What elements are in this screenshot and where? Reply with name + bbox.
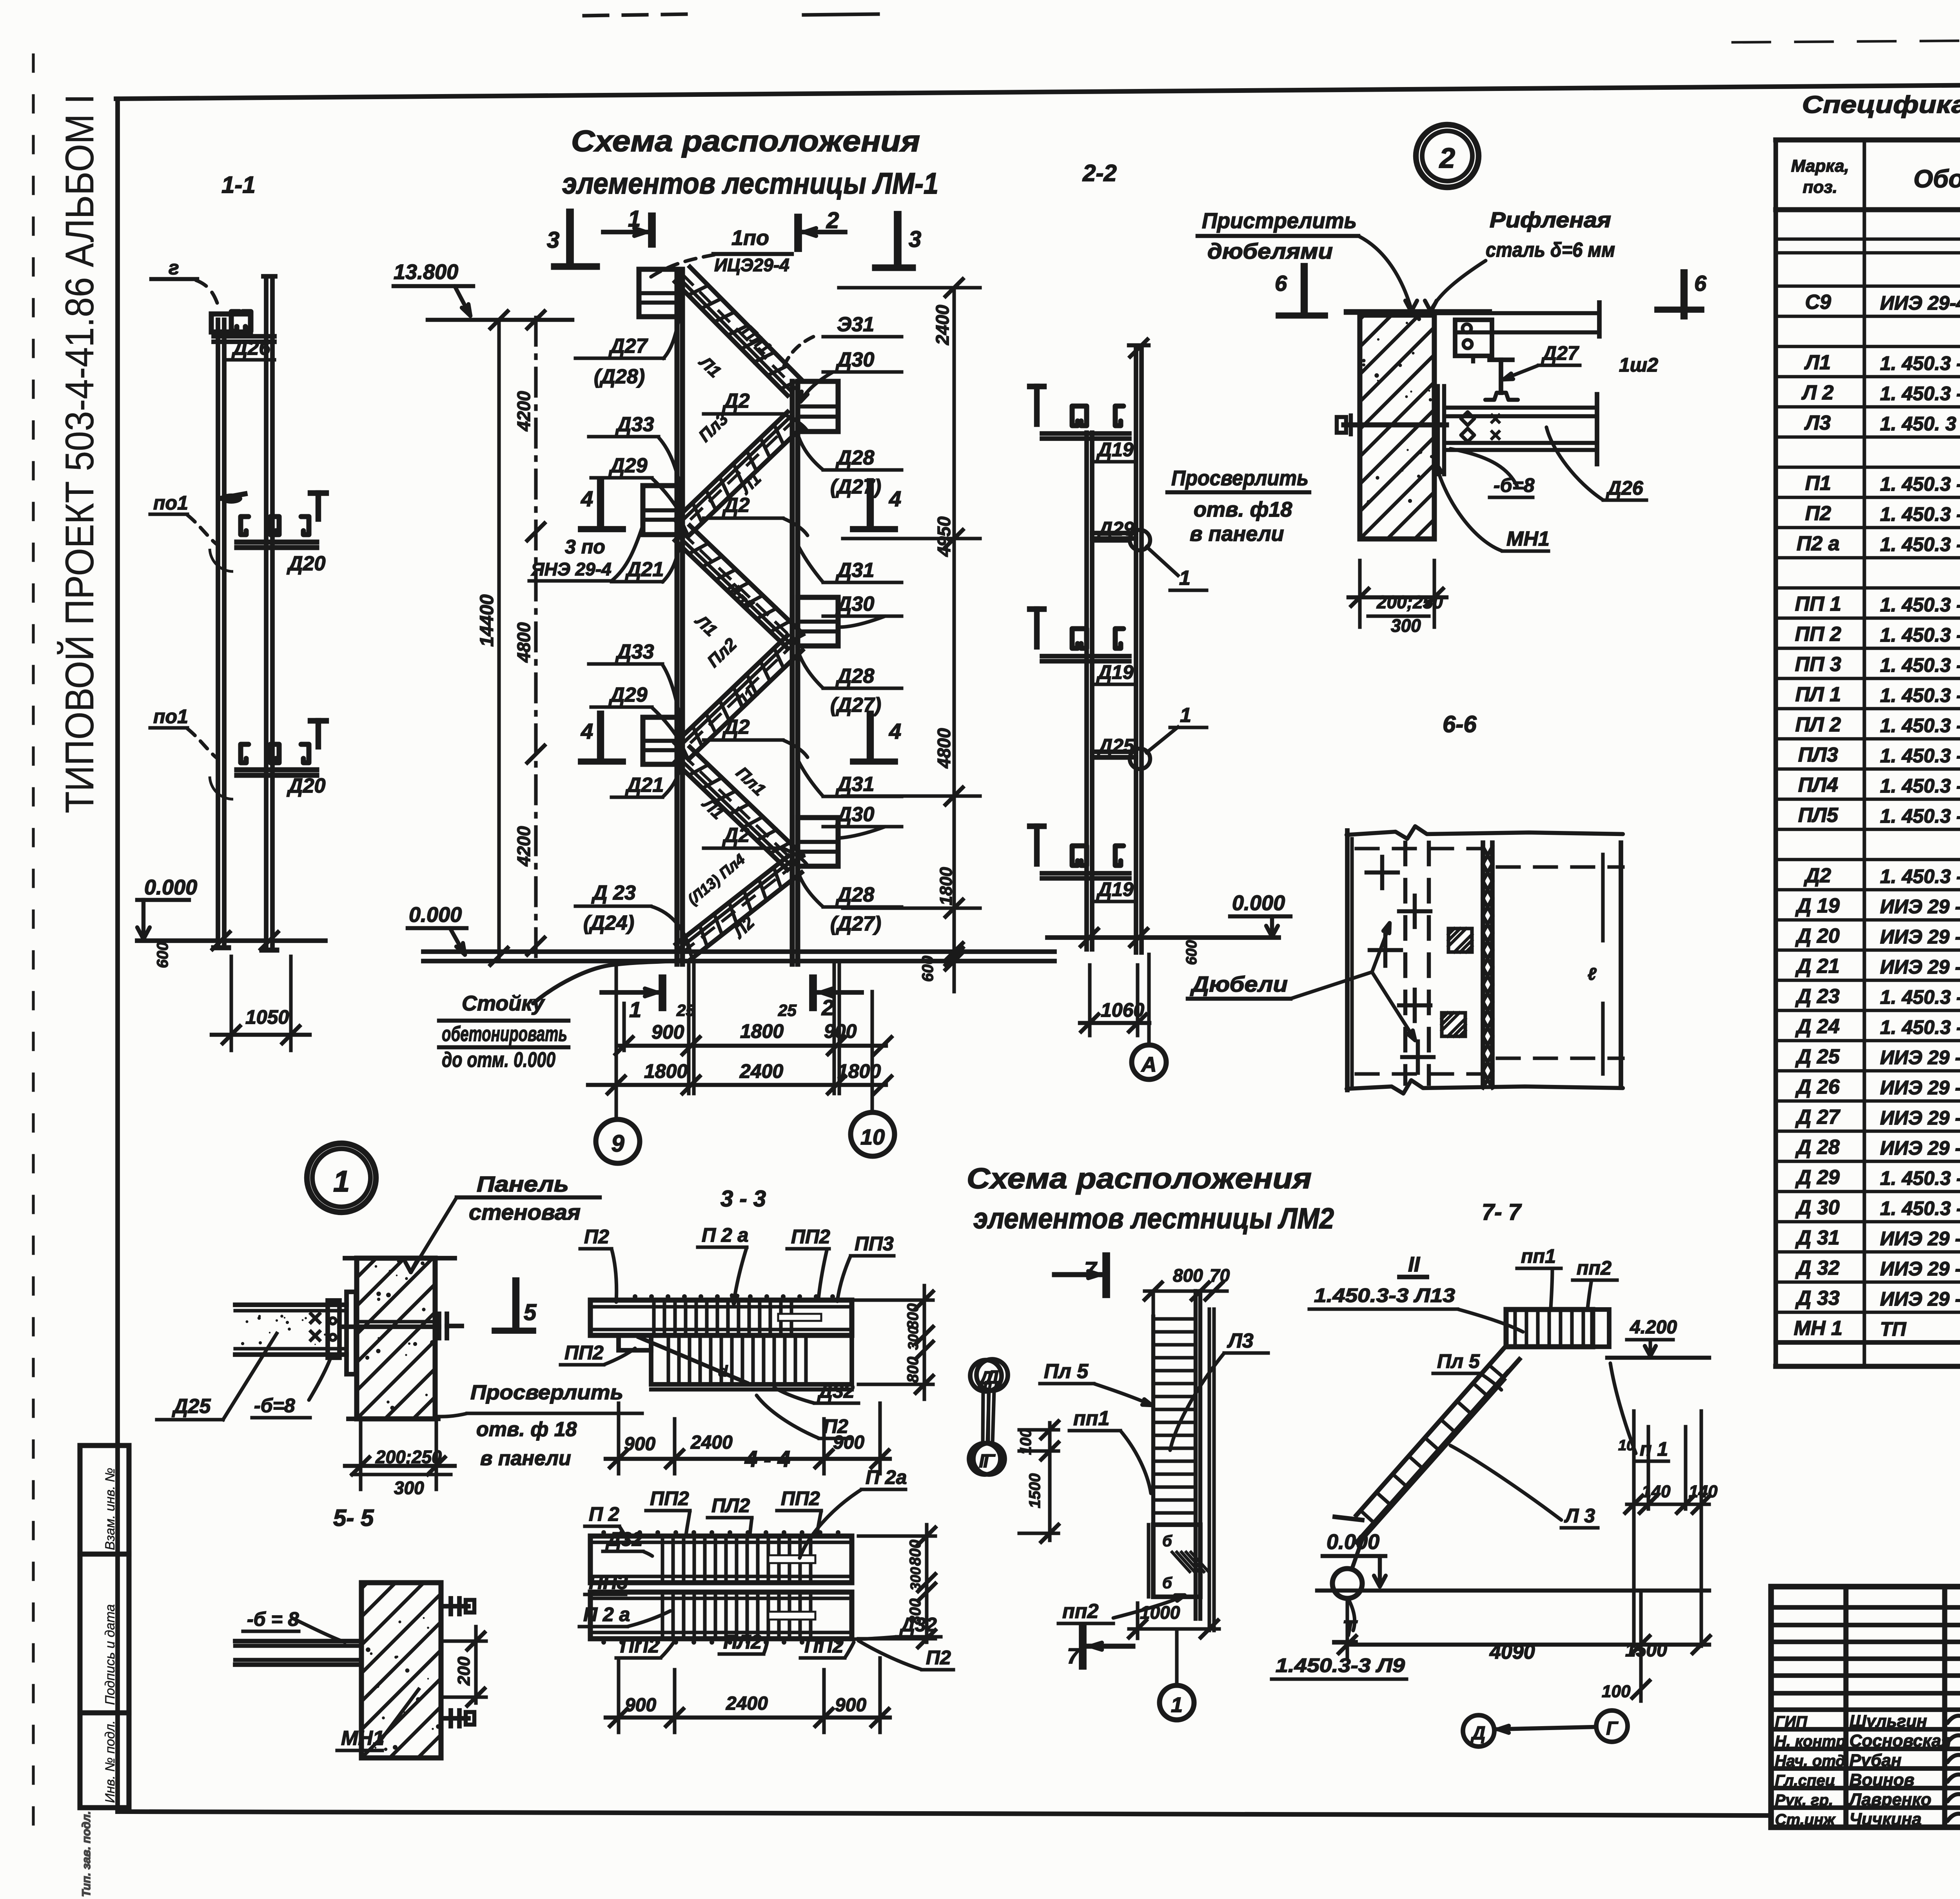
- svg-text:Д 31: Д 31: [1795, 1226, 1840, 1249]
- svg-text:ТП: ТП: [1880, 1318, 1907, 1340]
- svg-text:П 2 а: П 2 а: [702, 1224, 748, 1246]
- svg-text:Схема расположения: Схема расположения: [571, 125, 920, 158]
- svg-text:П 2: П 2: [589, 1503, 619, 1525]
- svg-text:Д 30: Д 30: [1795, 1196, 1840, 1219]
- svg-text:ИИЭ 29 - 4: ИИЭ 29 - 4: [1880, 1047, 1960, 1068]
- svg-text:1. 450.3 - 3, вып.1 ч. 2: 1. 450.3 - 3, вып.1 ч. 2: [1880, 624, 1960, 646]
- svg-text:Д2: Д2: [722, 390, 750, 412]
- svg-text:по1: по1: [153, 492, 188, 514]
- svg-text:Г: Г: [983, 1451, 996, 1472]
- svg-text:4950: 4950: [934, 516, 954, 557]
- svg-text:отв. ф 18: отв. ф 18: [476, 1418, 577, 1441]
- svg-text:3: 3: [909, 227, 921, 252]
- svg-text:1. 450.3 - 3, вып. 1 ч.2: 1. 450.3 - 3, вып. 1 ч.2: [1880, 1197, 1960, 1219]
- svg-text:1. 450.3 - 3, вып. 1 ч. 1: 1. 450.3 - 3, вып. 1 ч. 1: [1880, 383, 1960, 404]
- svg-text:обетонировать: обетонировать: [442, 1022, 567, 1046]
- svg-text:Д28: Д28: [835, 665, 874, 687]
- svg-text:1. 450.3 - 3. вып.1 ч. 2: 1. 450.3 - 3. вып.1 ч. 2: [1880, 533, 1960, 555]
- svg-text:Д2: Д2: [722, 716, 750, 738]
- svg-text:200;250: 200;250: [1376, 592, 1443, 612]
- svg-text:ПП2: ПП2: [781, 1487, 820, 1509]
- svg-text:1: 1: [1180, 704, 1191, 727]
- svg-text:6: 6: [1275, 271, 1287, 296]
- svg-text:1800: 1800: [936, 867, 956, 905]
- svg-text:Д20: Д20: [287, 774, 325, 797]
- svg-text:в панели: в панели: [480, 1447, 571, 1470]
- svg-text:ПП 2: ПП 2: [1795, 623, 1841, 646]
- svg-text:ИИЭ 29-4: ИИЭ 29-4: [1880, 292, 1960, 314]
- svg-text:800: 800: [907, 1540, 924, 1566]
- svg-text:элементов лестницы ЛМ-1: элементов лестницы ЛМ-1: [562, 167, 938, 200]
- svg-text:Д21: Д21: [625, 558, 664, 581]
- svg-text:140: 140: [1642, 1482, 1671, 1501]
- svg-text:Д 26: Д 26: [1795, 1076, 1840, 1098]
- svg-text:Пристрелить: Пристрелить: [1202, 208, 1357, 233]
- svg-text:2: 2: [1439, 143, 1455, 174]
- svg-text:ИИЭ 29 - 4: ИИЭ 29 - 4: [1880, 1228, 1960, 1250]
- svg-text:ПЛ 2: ПЛ 2: [1795, 713, 1841, 736]
- svg-text:П 2а: П 2а: [866, 1466, 907, 1488]
- svg-text:ПП2: ПП2: [564, 1342, 604, 1364]
- svg-text:II: II: [1408, 1253, 1420, 1276]
- svg-text:1: 1: [1171, 1693, 1183, 1717]
- svg-text:поз.: поз.: [1803, 178, 1837, 197]
- svg-text:ПЛ4: ПЛ4: [1798, 774, 1838, 796]
- svg-text:ПЛ5: ПЛ5: [1798, 804, 1838, 827]
- svg-text:100: 100: [1602, 1682, 1631, 1701]
- svg-text:Л3: Л3: [1804, 412, 1831, 434]
- svg-text:ИИЭ 29 - 4: ИИЭ 29 - 4: [1880, 1077, 1960, 1099]
- svg-text:4: 4: [581, 719, 593, 744]
- svg-text:Д 33: Д 33: [1795, 1287, 1840, 1310]
- svg-text:пп1: пп1: [1073, 1407, 1109, 1430]
- svg-text:4: 4: [581, 486, 593, 511]
- svg-text:элементов лестницы ЛМ2: элементов лестницы ЛМ2: [973, 1202, 1334, 1235]
- svg-text:Д 24: Д 24: [1795, 1015, 1840, 1038]
- svg-text:г: г: [169, 257, 179, 279]
- svg-text:Д28: Д28: [835, 883, 874, 906]
- svg-text:(Л13) Пл4: (Л13) Пл4: [685, 851, 748, 908]
- svg-text:2: 2: [826, 208, 839, 233]
- svg-text:4200: 4200: [514, 391, 534, 432]
- svg-text:900: 900: [652, 1021, 684, 1043]
- svg-text:1. 450.3 - 3 вып.1 ч.2: 1. 450.3 - 3 вып.1 ч.2: [1880, 745, 1960, 767]
- svg-text:ПП2: ПП2: [804, 1635, 844, 1657]
- svg-text:Д 23: Д 23: [591, 881, 636, 904]
- svg-text:1. 450.3 - 3. вып.1 ч.2: 1. 450.3 - 3. вып.1 ч.2: [1880, 654, 1960, 676]
- svg-text:П2: П2: [1805, 502, 1831, 525]
- svg-text:Д27: Д27: [608, 335, 648, 357]
- svg-text:Д21: Д21: [625, 774, 664, 796]
- svg-text:2400: 2400: [726, 1693, 768, 1714]
- svg-text:ПП2: ПП2: [791, 1226, 830, 1248]
- svg-text:1800: 1800: [837, 1060, 881, 1082]
- svg-text:Д2: Д2: [722, 494, 750, 517]
- svg-text:7: 7: [1067, 1643, 1080, 1668]
- svg-text:Панель: Панель: [477, 1172, 569, 1196]
- svg-text:4800: 4800: [934, 728, 954, 769]
- svg-text:б: б: [1162, 1574, 1172, 1592]
- svg-text:ИИЭ 29 - 4: ИИЭ 29 - 4: [1880, 1107, 1960, 1129]
- svg-text:1. 450.3 - 3. вып.1 ч.2: 1. 450.3 - 3. вып.1 ч.2: [1880, 865, 1960, 887]
- svg-text:900: 900: [625, 1695, 656, 1716]
- svg-text:ПП3: ПП3: [589, 1571, 628, 1593]
- svg-text:200: 200: [454, 1656, 474, 1686]
- svg-text:Д30: Д30: [835, 803, 874, 826]
- svg-text:Рифленая: Рифленая: [1490, 207, 1611, 232]
- svg-text:1. 450.3 - 3. вып. 1 ч.2: 1. 450.3 - 3. вып. 1 ч.2: [1880, 805, 1960, 827]
- svg-text:1: 1: [333, 1165, 350, 1198]
- svg-text:Л1: Л1: [691, 611, 721, 640]
- svg-text:Д 20: Д 20: [1795, 925, 1840, 947]
- svg-text:Ст.инж: Ст.инж: [1775, 1811, 1836, 1828]
- svg-text:Д33: Д33: [615, 640, 654, 663]
- svg-text:10: 10: [860, 1125, 885, 1149]
- svg-text:300: 300: [907, 1567, 924, 1591]
- svg-text:1800: 1800: [644, 1060, 688, 1082]
- svg-text:Д19: Д19: [1096, 878, 1134, 900]
- svg-text:0.000: 0.000: [1232, 891, 1285, 915]
- svg-text:Д 25: Д 25: [1795, 1045, 1840, 1068]
- svg-text:пп2: пп2: [1577, 1257, 1612, 1279]
- svg-text:ПП2: ПП2: [620, 1635, 659, 1657]
- svg-text:1. 450.3 - 3, вып. 1 ч.2: 1. 450.3 - 3, вып. 1 ч.2: [1880, 775, 1960, 797]
- svg-text:ИИЭ 29 - 4: ИИЭ 29 - 4: [1880, 1288, 1960, 1310]
- svg-text:-б=8: -б=8: [1494, 474, 1535, 496]
- svg-text:300: 300: [1391, 615, 1421, 636]
- svg-text:Д19: Д19: [1096, 661, 1134, 683]
- svg-text:0.000: 0.000: [144, 876, 197, 899]
- svg-text:1. 450.3 - 3, вып.1 ч.2: 1. 450.3 - 3, вып.1 ч.2: [1880, 1016, 1960, 1038]
- svg-text:Л3: Л3: [1227, 1329, 1254, 1352]
- svg-text:Д 21: Д 21: [1795, 955, 1840, 978]
- svg-text:Д30: Д30: [835, 593, 874, 615]
- svg-text:600: 600: [1183, 940, 1200, 965]
- svg-text:П2: П2: [926, 1647, 951, 1669]
- svg-text:4.200: 4.200: [1630, 1317, 1677, 1338]
- svg-text:4 - 4: 4 - 4: [744, 1446, 790, 1472]
- svg-text:1. 450. 3 - 3, вып. 1 ч. 1: 1. 450. 3 - 3, вып. 1 ч. 1: [1880, 413, 1960, 435]
- svg-text:Д19: Д19: [1096, 439, 1134, 461]
- svg-text:Дюбели: Дюбели: [1190, 972, 1288, 996]
- svg-text:5- 5: 5- 5: [333, 1505, 374, 1531]
- svg-text:0.000: 0.000: [1327, 1530, 1379, 1554]
- svg-text:С9: С9: [1805, 291, 1831, 314]
- svg-text:ИИЭ 29 - 4: ИИЭ 29 - 4: [1880, 926, 1960, 948]
- svg-text:-б=8: -б=8: [254, 1395, 295, 1417]
- svg-text:Просверлить: Просверлить: [470, 1381, 623, 1404]
- svg-text:по1: по1: [153, 706, 188, 727]
- svg-text:Пл 5: Пл 5: [1044, 1360, 1089, 1383]
- svg-text:Д32: Д32: [817, 1380, 855, 1402]
- svg-text:Д29: Д29: [608, 454, 647, 477]
- svg-text:1: 1: [629, 997, 641, 1022]
- svg-text:4090: 4090: [1489, 1641, 1535, 1663]
- svg-text:6: 6: [1694, 271, 1707, 296]
- svg-text:Просверлить: Просверлить: [1171, 466, 1308, 490]
- svg-text:1-1: 1-1: [221, 172, 256, 198]
- svg-text:Чичкина: Чичкина: [1849, 1810, 1922, 1829]
- svg-text:ИЦЭ29-4: ИЦЭ29-4: [714, 255, 789, 275]
- svg-text:до отм. 0.000: до отм. 0.000: [442, 1048, 555, 1072]
- svg-text:Д 27: Д 27: [1795, 1106, 1840, 1128]
- svg-text:П1: П1: [1805, 472, 1831, 495]
- svg-text:Л1: Л1: [1804, 351, 1831, 374]
- svg-text:1800: 1800: [740, 1020, 784, 1042]
- svg-text:стеновая: стеновая: [469, 1200, 581, 1224]
- svg-text:пп2: пп2: [1062, 1600, 1099, 1623]
- svg-text:ПП 1: ПП 1: [1795, 593, 1841, 615]
- svg-text:1060: 1060: [1101, 999, 1144, 1021]
- svg-text:1. 450.3 - 3. вып.1 ч.2: 1. 450.3 - 3. вып.1 ч.2: [1880, 594, 1960, 616]
- svg-text:800: 800: [904, 1357, 922, 1383]
- svg-text:ТИПОВОЙ ПРОЕКТ 503-4-41.86: ТИПОВОЙ ПРОЕКТ 503-4-41.86 АЛЬБОМ I: [57, 94, 102, 813]
- svg-text:600: 600: [154, 942, 171, 968]
- svg-text:МН1: МН1: [1506, 528, 1550, 550]
- svg-text:отв. ф18: отв. ф18: [1194, 498, 1292, 521]
- svg-text:Пл2: Пл2: [704, 635, 740, 671]
- svg-text:2400: 2400: [932, 305, 953, 345]
- svg-text:Схема расположения: Схема расположения: [967, 1162, 1312, 1195]
- svg-text:2400: 2400: [739, 1060, 783, 1082]
- svg-text:4200: 4200: [514, 826, 534, 867]
- svg-text:П2: П2: [584, 1226, 609, 1248]
- svg-text:А: А: [1141, 1053, 1157, 1076]
- svg-text:в панели: в панели: [1190, 522, 1284, 546]
- svg-text:Марка,: Марка,: [1791, 156, 1849, 176]
- svg-text:1.450.3-3 Л13: 1.450.3-3 Л13: [1314, 1284, 1455, 1306]
- svg-text:Д30: Д30: [835, 348, 874, 371]
- svg-text:300: 300: [394, 1478, 424, 1498]
- svg-text:d: d: [718, 1363, 728, 1380]
- svg-text:ИИЭ 29 - 4: ИИЭ 29 - 4: [1880, 1137, 1960, 1159]
- svg-text:1. 450.3 - 3, вып. 1 ч.2: 1. 450.3 - 3, вып. 1 ч.2: [1880, 1167, 1960, 1189]
- svg-text:140: 140: [1689, 1482, 1718, 1501]
- svg-text:900: 900: [624, 1434, 655, 1455]
- svg-text:ℓ: ℓ: [1588, 965, 1597, 984]
- svg-text:ПЛ2: ПЛ2: [723, 1631, 762, 1653]
- svg-text:(Д27): (Д27): [830, 912, 881, 935]
- svg-text:13.800: 13.800: [394, 260, 458, 284]
- svg-text:Взам. инв. №: Взам. инв. №: [103, 1468, 118, 1550]
- svg-text:Спецификация элементов к сх: Спецификация элементов к схемам располож…: [1802, 91, 1960, 118]
- svg-text:1.450.3-3 Л9: 1.450.3-3 Л9: [1276, 1654, 1405, 1676]
- svg-text:ПП2: ПП2: [650, 1487, 689, 1509]
- svg-text:ИИЭ 29 - 4: ИИЭ 29 - 4: [1880, 896, 1960, 918]
- svg-text:2400: 2400: [690, 1432, 733, 1453]
- svg-text:Подпись и дата: Подпись и дата: [103, 1604, 118, 1705]
- svg-text:1. 450.3 - 3, вып.1 ч.2: 1. 450.3 - 3, вып.1 ч.2: [1880, 715, 1960, 736]
- svg-text:(Д24): (Д24): [583, 912, 634, 934]
- svg-text:ИИЭ 29 - 4: ИИЭ 29 - 4: [1880, 1258, 1960, 1280]
- svg-text:1. 450.3 - 3, вып.1 ч. 1: 1. 450.3 - 3, вып.1 ч. 1: [1880, 352, 1960, 374]
- svg-text:1. 450.3 - 3, вып.1 ч.2: 1. 450.3 - 3, вып.1 ч.2: [1880, 986, 1960, 1008]
- svg-text:Д2: Д2: [722, 824, 750, 847]
- svg-text:800: 800: [1173, 1265, 1203, 1286]
- svg-text:1: 1: [1179, 567, 1191, 589]
- svg-text:9: 9: [611, 1130, 624, 1157]
- svg-text:Д 28: Д 28: [1795, 1136, 1840, 1159]
- svg-text:дюбелями: дюбелями: [1207, 239, 1333, 263]
- svg-text:Д29: Д29: [608, 684, 647, 706]
- svg-text:Л 3: Л 3: [1564, 1505, 1595, 1527]
- svg-text:Тип. зав. подл.: Тип. зав. подл.: [80, 1811, 93, 1897]
- svg-text:3 по: 3 по: [565, 536, 605, 558]
- svg-text:800: 800: [907, 1598, 924, 1625]
- svg-text:ПЛ2: ПЛ2: [711, 1495, 750, 1516]
- svg-text:14400: 14400: [477, 594, 497, 647]
- svg-text:1050: 1050: [245, 1006, 289, 1028]
- svg-text:Инв. № подл.: Инв. № подл.: [103, 1720, 118, 1803]
- svg-text:1500: 1500: [1625, 1640, 1667, 1661]
- svg-text:Г: Г: [1606, 1718, 1619, 1739]
- svg-text:Пл 5: Пл 5: [1437, 1350, 1480, 1372]
- svg-text:5: 5: [524, 1300, 537, 1325]
- svg-text:0.000: 0.000: [409, 903, 462, 927]
- svg-text:Д27: Д27: [1541, 342, 1579, 364]
- svg-text:П 2 а: П 2 а: [583, 1603, 630, 1625]
- svg-text:800: 800: [904, 1303, 922, 1329]
- svg-text:П2 а: П2 а: [1797, 532, 1840, 555]
- svg-text:сталь δ=6 мм: сталь δ=6 мм: [1486, 239, 1615, 261]
- svg-text:Д31: Д31: [835, 559, 874, 582]
- svg-text:Л 2: Л 2: [1801, 381, 1833, 404]
- svg-text:МН1: МН1: [341, 1727, 384, 1750]
- svg-text:ПП 3: ПП 3: [1795, 653, 1841, 676]
- svg-text:Д26: Д26: [1606, 477, 1644, 499]
- svg-text:2-2: 2-2: [1082, 160, 1117, 186]
- svg-text:4: 4: [889, 719, 901, 744]
- svg-text:900: 900: [824, 1020, 857, 1042]
- svg-text:25: 25: [778, 1001, 797, 1019]
- svg-text:900: 900: [833, 1432, 864, 1453]
- svg-text:п 1: п 1: [1640, 1438, 1668, 1460]
- svg-text:4800: 4800: [514, 622, 534, 663]
- svg-text:1. 450.3 - 3, вып.1 ч. 2: 1. 450.3 - 3, вып.1 ч. 2: [1880, 473, 1960, 495]
- svg-text:1500: 1500: [1026, 1473, 1044, 1508]
- svg-text:7- 7: 7- 7: [1482, 1199, 1522, 1225]
- svg-text:300: 300: [905, 1326, 921, 1350]
- svg-text:б: б: [1162, 1533, 1172, 1550]
- svg-text:1по: 1по: [731, 226, 769, 250]
- svg-text:ПП3: ПП3: [855, 1233, 894, 1255]
- svg-text:Л1: Л1: [695, 352, 725, 381]
- svg-text:4: 4: [889, 486, 901, 511]
- svg-text:ЯНЭ 29-4: ЯНЭ 29-4: [531, 559, 612, 579]
- svg-text:Э31: Э31: [837, 313, 874, 336]
- svg-text:900: 900: [835, 1695, 866, 1716]
- svg-text:Д 29: Д 29: [1795, 1166, 1840, 1189]
- svg-text:200;250: 200;250: [375, 1447, 442, 1467]
- svg-text:Д 32: Д 32: [1795, 1257, 1840, 1279]
- svg-text:(Д28): (Д28): [594, 365, 645, 388]
- svg-text:Д25: Д25: [172, 1395, 211, 1418]
- svg-text:Д 19: Д 19: [1795, 894, 1840, 917]
- svg-text:1ш2: 1ш2: [1619, 354, 1658, 376]
- svg-text:6-6: 6-6: [1443, 711, 1477, 737]
- svg-text:Д: Д: [1470, 1723, 1486, 1744]
- svg-text:Д20: Д20: [287, 552, 325, 575]
- svg-text:МН 1: МН 1: [1794, 1317, 1842, 1340]
- svg-text:Д32: Д32: [605, 1528, 643, 1550]
- svg-text:ИИЭ 29 - 4: ИИЭ 29 - 4: [1880, 956, 1960, 978]
- svg-text:Д28: Д28: [835, 446, 874, 469]
- svg-text:Д33: Д33: [615, 413, 654, 436]
- svg-text:Д26: Д26: [231, 337, 270, 359]
- svg-text:Д: Д: [984, 1367, 999, 1388]
- svg-text:3 - 3: 3 - 3: [720, 1186, 766, 1212]
- svg-text:Обозначение: Обозначение: [1913, 165, 1960, 193]
- svg-text:Д 23: Д 23: [1795, 985, 1840, 1008]
- svg-text:Д2: Д2: [1804, 864, 1831, 887]
- svg-text:1. 450.3 - 3, вып.1 ч. 2: 1. 450.3 - 3, вып.1 ч. 2: [1880, 684, 1960, 706]
- svg-text:ПЛ3: ПЛ3: [1798, 744, 1838, 766]
- svg-text:Д31: Д31: [835, 773, 874, 796]
- svg-text:2: 2: [821, 995, 834, 1020]
- svg-text:3: 3: [547, 227, 559, 253]
- svg-text:1. 450.3 - 3. вып.1 ч. 2: 1. 450.3 - 3. вып.1 ч. 2: [1880, 503, 1960, 525]
- svg-text:пп1: пп1: [1521, 1245, 1556, 1267]
- svg-text:ПЛ 1: ПЛ 1: [1795, 683, 1841, 706]
